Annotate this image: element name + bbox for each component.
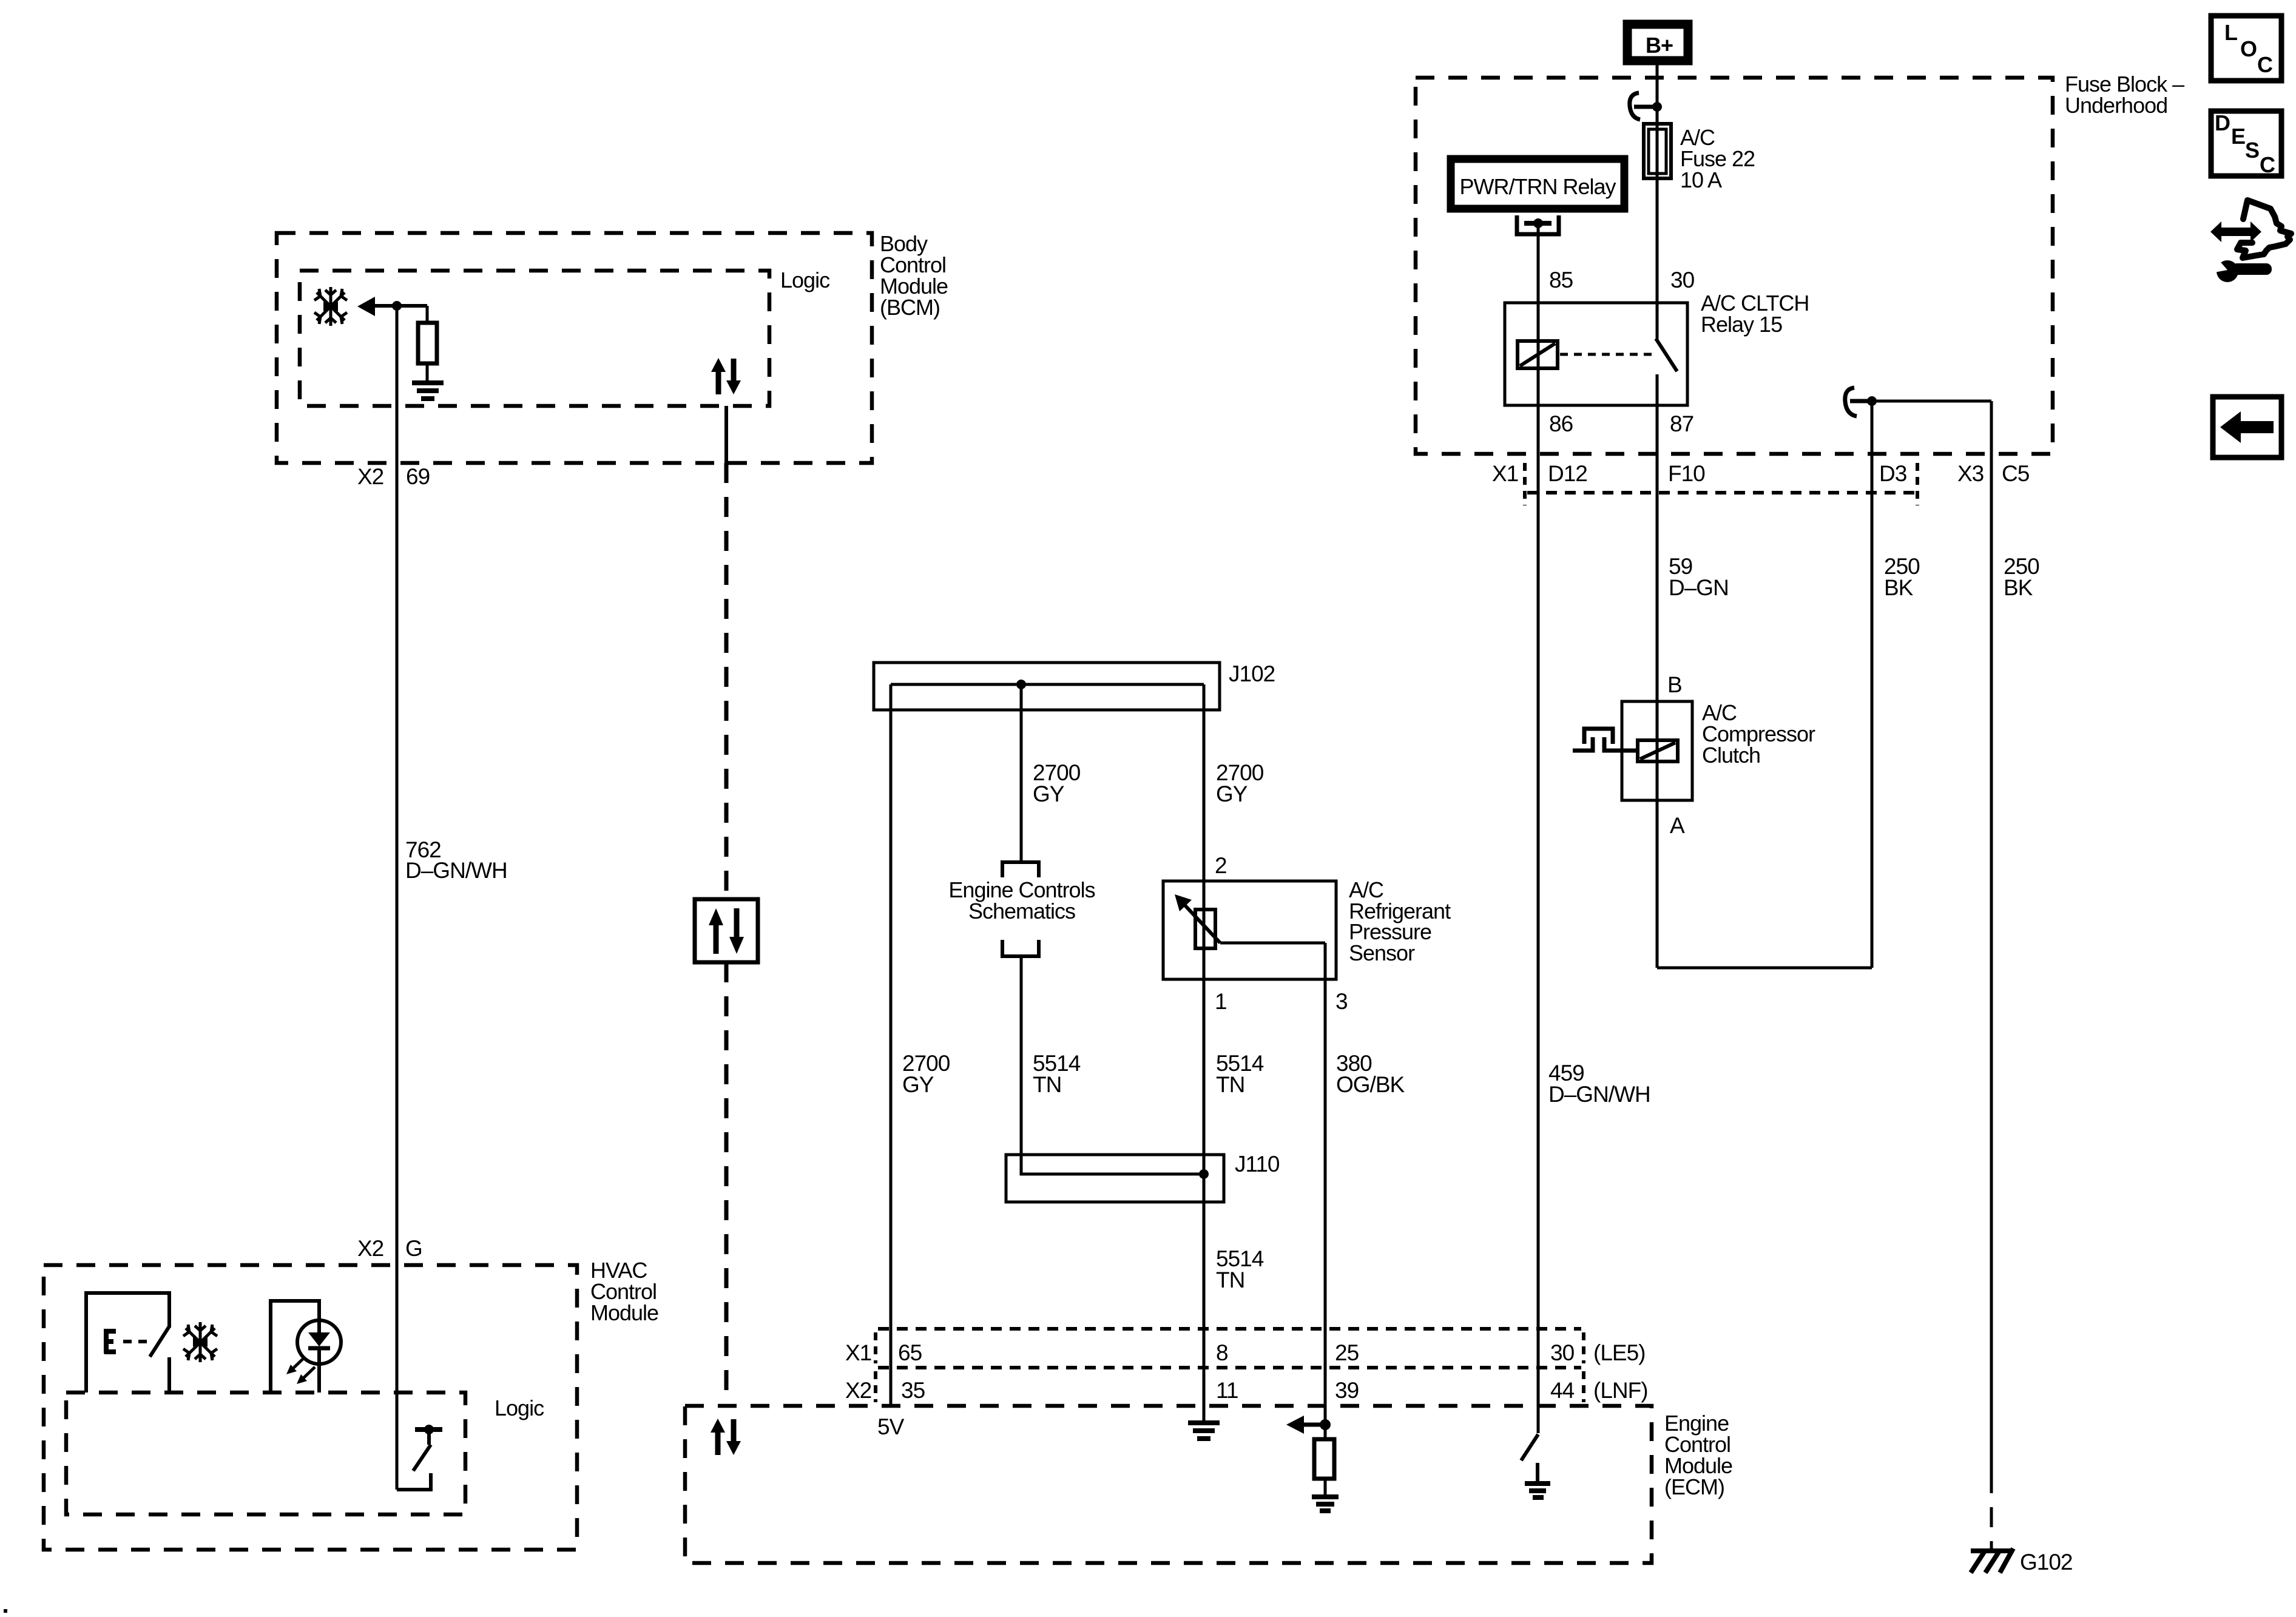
off-page bracket lower (Engine Controls Schematics) — [1002, 940, 1039, 956]
A/C compressor clutch box — [1622, 701, 1692, 800]
ground ECM pin 39 resistor — [1312, 1497, 1339, 1511]
label 250 BK (D3) — [1884, 554, 1920, 600]
PWR/TRN relay output bracket — [1517, 215, 1559, 234]
snowflake HVAC — [183, 1322, 217, 1362]
wire B+ to fuse to relay pin 30 — [1656, 61, 1659, 303]
wire 762 D-GN/WH BCM to HVAC — [396, 306, 399, 1490]
label A/C Fuse 22 10 A — [1680, 125, 1755, 192]
label 5514 TN (below J110) — [1216, 1246, 1264, 1292]
label 380 OG/BK — [1336, 1051, 1405, 1097]
A/C refrigerant pressure sensor box — [1163, 881, 1336, 979]
svg-text:PWR/TRN Relay: PWR/TRN Relay — [1459, 174, 1616, 199]
clutch coil — [1638, 740, 1678, 761]
svg-text:Clutch: Clutch — [1702, 743, 1760, 768]
svg-text:87: 87 — [1670, 411, 1693, 436]
label 5514 TN (right) — [1216, 1051, 1264, 1097]
connector row X1 separator — [1523, 463, 1527, 505]
wire clutch A to 250 BK link — [1657, 967, 1872, 970]
svg-text:D–GN/WH: D–GN/WH — [405, 858, 507, 883]
svg-text:J102: J102 — [1229, 661, 1275, 686]
icon connector view with wrench — [2210, 200, 2291, 282]
svg-text:TN: TN — [1216, 1268, 1244, 1292]
svg-text:30: 30 — [1550, 1340, 1575, 1365]
arrow to snowflake — [357, 297, 427, 316]
label 2700 GY (left) — [902, 1051, 950, 1097]
label A/C Compressor Clutch — [1702, 700, 1815, 768]
BCM logic serial arrows up/down — [711, 358, 741, 394]
svg-text:G: G — [405, 1236, 422, 1261]
relay coil — [1518, 303, 1558, 405]
svg-text:GY: GY — [1033, 781, 1064, 806]
svg-text:30: 30 — [1670, 268, 1695, 292]
wire 459 D-GN/WH relay 86 to ECM — [1537, 405, 1540, 1406]
svg-text:S: S — [2245, 138, 2259, 163]
svg-text:(ECM): (ECM) — [1664, 1474, 1724, 1499]
svg-text:B: B — [1667, 672, 1682, 697]
svg-text:65: 65 — [898, 1340, 922, 1365]
icon back arrow box — [2213, 397, 2281, 457]
svg-text:C: C — [2257, 52, 2273, 77]
svg-text:BK: BK — [2004, 575, 2033, 600]
ECM pin 39 junction and signal arrow — [1286, 1416, 1331, 1434]
ECM pull-down resistor pin 39 — [1314, 1406, 1334, 1497]
label 459 D-GN/WH — [1548, 1061, 1650, 1107]
fuse block underhood dashed box — [1416, 78, 2053, 454]
svg-text:44: 44 — [1550, 1378, 1575, 1403]
svg-text:BK: BK — [1884, 575, 1914, 600]
ECM dashed box — [685, 1406, 1652, 1563]
svg-text:Sensor: Sensor — [1349, 940, 1415, 965]
ECM connector row middle dashed line — [878, 1366, 1581, 1369]
svg-text:(LE5): (LE5) — [1593, 1340, 1645, 1365]
label 2700 GY (right) — [1216, 760, 1264, 806]
svg-text:85: 85 — [1549, 268, 1573, 292]
svg-text:10 A: 10 A — [1680, 167, 1722, 192]
label Engine Control Module (ECM) — [1664, 1411, 1732, 1499]
svg-text:3: 3 — [1335, 989, 1348, 1014]
svg-text:Logic: Logic — [495, 1396, 544, 1420]
svg-text:D: D — [2215, 110, 2230, 135]
svg-text:Schematics: Schematics — [968, 899, 1075, 923]
label Body Control Module (BCM) — [880, 231, 948, 320]
icon DESC box — [2211, 110, 2281, 177]
wire 2700 GY J102 to schematics bracket — [1020, 684, 1023, 861]
svg-text:L: L — [2224, 20, 2237, 45]
bus tap at B+ feed — [1630, 93, 1662, 120]
BCM logic dashed box — [300, 271, 769, 406]
icon LOC box — [2211, 16, 2281, 81]
svg-text:2: 2 — [1215, 853, 1227, 878]
serial data dashed line BCM to ECM — [724, 463, 729, 1406]
ECM row X2 labels — [845, 1378, 1648, 1403]
connector label X2 G (HVAC) — [357, 1236, 422, 1261]
snowflake BCM — [314, 287, 347, 326]
label 5514 TN (middle) — [1033, 1051, 1081, 1097]
svg-text:Logic: Logic — [780, 268, 830, 292]
wire 380 OG/BK sensor pin 3 to ECM pin 25 — [1324, 943, 1327, 1406]
label 250 BK (C5) — [2004, 554, 2039, 600]
svg-text:B+: B+ — [1646, 33, 1673, 58]
relay A/C CLTCH Relay 15 box — [1505, 303, 1687, 405]
svg-text:(BCM): (BCM) — [880, 295, 940, 320]
label 59 D-GN — [1669, 554, 1729, 600]
wire 59 D-GN relay 87 to clutch — [1656, 405, 1659, 968]
connector label X2 69 (BCM) — [357, 464, 430, 489]
label A/C Refrigerant Pressure Sensor — [1349, 877, 1451, 965]
label HVAC Control Module — [590, 1258, 658, 1325]
wire 2700 GY J102 to ECM 5V — [890, 684, 893, 1406]
label 2700 GY (middle) — [1033, 760, 1081, 806]
svg-text:E: E — [2231, 124, 2245, 149]
svg-text:5V: 5V — [877, 1414, 905, 1439]
svg-text:39: 39 — [1335, 1378, 1359, 1403]
HVAC logic dashed box — [66, 1393, 465, 1514]
svg-text:Relay 15: Relay 15 — [1701, 312, 1782, 337]
svg-text:O: O — [2240, 36, 2257, 61]
HVAC control module dashed box — [44, 1265, 577, 1550]
PWR/TRN Relay box — [1451, 159, 1624, 209]
connector row bottom dashed line — [1527, 491, 1914, 495]
wire 250 BK C5 drop — [1990, 401, 1993, 1473]
relay switch pin 30 to 87 — [1656, 303, 1677, 405]
label A/C CLTCH Relay 15 — [1701, 291, 1809, 337]
svg-text:86: 86 — [1549, 411, 1573, 436]
svg-text:(LNF): (LNF) — [1593, 1378, 1648, 1403]
ground ECM pin 11 — [1188, 1406, 1220, 1439]
ECM row left separator — [874, 1332, 877, 1402]
splice pack J110 — [1006, 1155, 1224, 1202]
connector row D3/X3 separator — [1916, 463, 1919, 505]
svg-text:D12: D12 — [1548, 461, 1587, 486]
svg-text:X2: X2 — [357, 464, 383, 489]
wire 250 BK D3 drop — [1871, 401, 1874, 968]
ground G102 chassis — [1971, 1473, 2013, 1573]
BCM pull-up resistor — [418, 306, 437, 380]
label Fuse Block - Underhood — [2065, 72, 2184, 118]
HVAC indicator LED — [271, 1301, 341, 1393]
ground BCM resistor — [412, 383, 444, 399]
wire 5514 TN bracket to J110 — [1021, 956, 1204, 1174]
svg-text:X3: X3 — [1957, 461, 1984, 486]
svg-text:X2: X2 — [845, 1378, 871, 1403]
page corner mark — [4, 1609, 7, 1613]
svg-text:35: 35 — [901, 1378, 925, 1403]
svg-text:OG/BK: OG/BK — [1336, 1072, 1405, 1097]
fuse A/C Fuse 22 10A — [1644, 124, 1671, 178]
wire tap to C5 drop — [1872, 400, 1991, 403]
svg-text:Underhood: Underhood — [2065, 93, 2167, 118]
ECM row right separator — [1582, 1332, 1585, 1402]
ECM row X1 labels — [845, 1340, 1645, 1365]
ECM serial arrows up/down — [711, 1419, 741, 1455]
svg-text:69: 69 — [406, 464, 430, 489]
svg-text:TN: TN — [1216, 1072, 1244, 1097]
svg-text:GY: GY — [1216, 781, 1248, 806]
svg-text:TN: TN — [1033, 1072, 1061, 1097]
svg-text:G102: G102 — [2020, 1550, 2073, 1575]
svg-text:1: 1 — [1215, 989, 1227, 1014]
HVAC A/C request switch — [86, 1293, 169, 1393]
wire PWR/TRN to relay pin 85 — [1537, 223, 1540, 303]
HVAC logic switch to ground loop — [397, 1425, 442, 1491]
clutch mechanical linkage symbol — [1573, 729, 1638, 751]
svg-text:D3: D3 — [1879, 461, 1906, 486]
serial data up/down arrow box — [695, 899, 758, 962]
bus tap junction to D3/C5 — [1845, 388, 1877, 416]
ECM pin 44 switch to ground — [1521, 1406, 1550, 1497]
svg-text:GY: GY — [902, 1072, 934, 1097]
svg-text:X1: X1 — [1492, 461, 1518, 486]
wire logic exit BCM — [724, 406, 728, 463]
svg-text:25: 25 — [1335, 1340, 1359, 1365]
svg-text:C: C — [2260, 152, 2275, 177]
battery feed B+ — [1627, 24, 1688, 61]
wire 2700 GY J102 to sensor pin 2 and 5514 TN to ECM pin 8 — [1203, 684, 1206, 1406]
junction node BCM output — [392, 301, 402, 311]
svg-text:11: 11 — [1216, 1378, 1238, 1403]
off-page bracket upper (Engine Controls Schematics) — [1002, 862, 1039, 877]
svg-text:8: 8 — [1216, 1340, 1228, 1365]
svg-text:X2: X2 — [357, 1236, 383, 1261]
svg-text:J110: J110 — [1235, 1152, 1280, 1176]
label Engine Controls Schematics — [948, 877, 1095, 923]
ECM connector row X1 top dashed line — [878, 1327, 1581, 1331]
svg-text:Module: Module — [590, 1300, 658, 1325]
svg-text:F10: F10 — [1668, 461, 1705, 486]
svg-text:C5: C5 — [2002, 461, 2030, 486]
svg-text:D–GN: D–GN — [1669, 575, 1729, 600]
svg-text:X1: X1 — [845, 1340, 871, 1365]
sensor variable resistor — [1175, 894, 1325, 948]
connector row X1 D12 F10 D3 X3 C5 labels — [1492, 461, 2030, 486]
BCM dashed box — [277, 233, 872, 463]
label 762 D-GN/WH — [405, 837, 507, 883]
svg-text:D–GN/WH: D–GN/WH — [1548, 1082, 1650, 1107]
splice pack J102 — [874, 663, 1220, 710]
relay coil to switch dashed link — [1560, 353, 1652, 356]
svg-text:A: A — [1670, 813, 1685, 838]
